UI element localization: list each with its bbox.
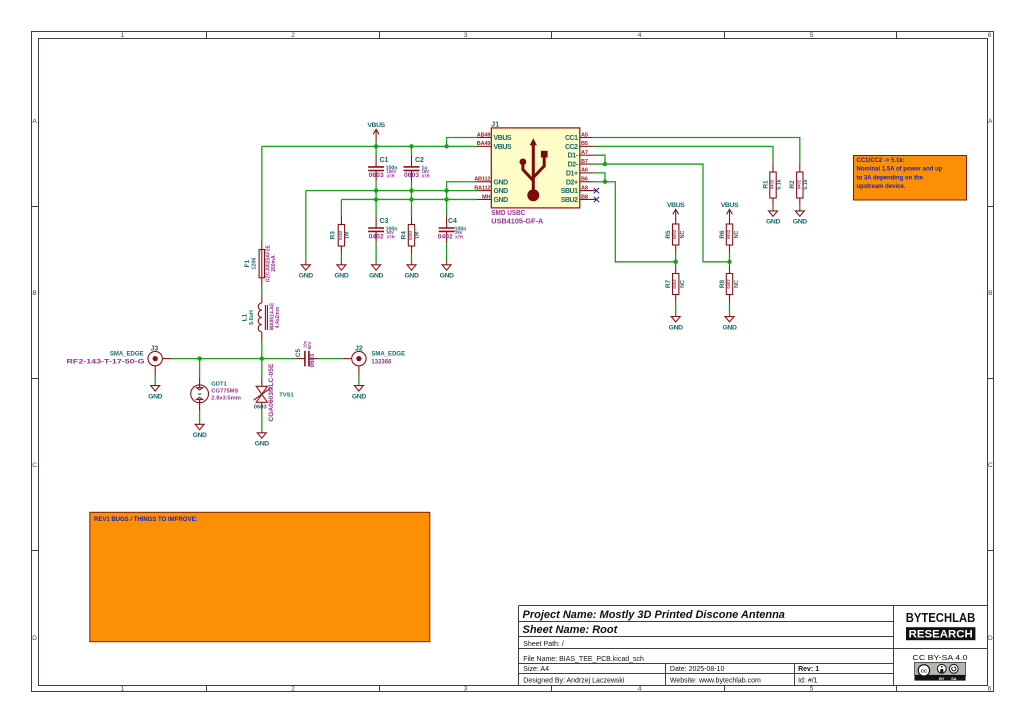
svg-text:GND: GND [193,432,207,439]
svg-text:GND: GND [404,273,418,280]
svg-text:C1: C1 [380,157,389,164]
svg-text:File Name: BIAS_TEE_PCB.kicad_: File Name: BIAS_TEE_PCB.kicad_sch [523,656,644,663]
svg-text:Project Name: Mostly 3D Printe: Project Name: Mostly 3D Printed Discone … [523,609,785,621]
svg-text:A5: A5 [581,132,588,138]
svg-text:to 3A depending on the: to 3A depending on the [857,175,924,181]
svg-text:B5: B5 [581,141,588,147]
svg-text:CC: CC [921,668,928,673]
svg-text:SMA_EDGE: SMA_EDGE [110,352,144,358]
svg-text:0402: 0402 [369,233,384,240]
svg-text:5: 5 [810,32,814,39]
svg-text:5.1k: 5.1k [803,179,809,190]
svg-text:GND: GND [352,394,366,401]
svg-text:GND: GND [255,441,269,448]
svg-text:GND: GND [148,394,162,401]
svg-text:Id: #/1: Id: #/1 [798,678,818,685]
svg-text:B6: B6 [581,177,588,183]
svg-text:Website: www.bytechlab.com: Website: www.bytechlab.com [670,678,761,685]
svg-text:L1: L1 [242,313,249,321]
svg-text:A: A [988,118,993,125]
svg-text:1: 1 [121,686,125,693]
svg-text:R1: R1 [762,180,769,189]
svg-text:Rev: 1: Rev: 1 [798,666,819,673]
svg-text:4: 4 [638,32,642,39]
svg-text:A: A [32,118,37,125]
svg-text:USB4105-GF-A: USB4105-GF-A [491,216,544,225]
svg-text:GND: GND [494,197,509,204]
svg-text:R2: R2 [789,180,796,189]
svg-text:0402: 0402 [770,179,775,189]
svg-text:GND: GND [299,273,313,280]
svg-text:VBUS: VBUS [367,122,385,129]
svg-text:X7R: X7R [422,173,430,178]
svg-text:CGA0603MLC-05E: CGA0603MLC-05E [269,364,275,422]
svg-text:SMA_EDGE: SMA_EDGE [371,352,405,358]
svg-text:BYTECHLAB: BYTECHLAB [906,611,976,625]
svg-text:J2: J2 [355,346,363,353]
svg-text:R4: R4 [401,231,408,240]
svg-text:NC: NC [680,231,686,239]
svg-text:4.4x2mm: 4.4x2mm [275,306,281,328]
svg-text:0603: 0603 [404,172,419,179]
svg-text:R5: R5 [665,230,672,239]
svg-text:CC1: CC1 [565,135,578,142]
svg-text:50V: 50V [307,342,312,350]
svg-text:5.1k: 5.1k [776,179,782,190]
svg-text:D2-: D2- [568,162,579,169]
svg-text:0402: 0402 [672,229,677,239]
svg-text:NC: NC [734,231,740,239]
svg-text:2.8x3.5mm: 2.8x3.5mm [211,396,241,402]
svg-text:0402: 0402 [672,279,677,289]
svg-text:TVS1: TVS1 [279,393,294,399]
svg-text:GND: GND [494,188,509,195]
svg-text:Sheet Path: /: Sheet Path: / [523,641,564,648]
svg-text:CC BY-SA 4.0: CC BY-SA 4.0 [913,653,968,662]
svg-text:GND: GND [369,273,383,280]
svg-text:1206: 1206 [251,258,257,270]
svg-text:0402: 0402 [726,229,731,239]
svg-text:BY: BY [939,677,945,681]
svg-text:GND: GND [722,325,736,332]
svg-text:4: 4 [638,686,642,693]
svg-text:Date: 2025-08-10: Date: 2025-08-10 [670,666,725,673]
svg-text:0603: 0603 [310,353,316,367]
svg-text:J3: J3 [151,346,159,353]
svg-text:VBUS: VBUS [667,202,685,209]
svg-text:VBUS: VBUS [494,144,512,151]
svg-text:A6: A6 [581,168,588,174]
svg-text:3: 3 [464,686,468,693]
svg-text:VBUS: VBUS [494,135,512,142]
svg-text:1M: 1M [344,231,350,239]
svg-text:5: 5 [810,686,814,693]
svg-text:R6: R6 [719,230,726,239]
svg-text:Size: A4: Size: A4 [523,666,549,673]
svg-text:0402: 0402 [338,230,343,240]
svg-text:D: D [32,635,37,642]
svg-text:Nominal 1.5A of power and up: Nominal 1.5A of power and up [857,167,943,173]
svg-text:GND: GND [766,219,780,226]
svg-text:3: 3 [464,32,468,39]
svg-text:GDT1: GDT1 [211,382,227,388]
svg-text:0603: 0603 [254,404,268,410]
svg-text:C: C [988,462,993,469]
svg-text:1M: 1M [414,231,420,239]
svg-text:2: 2 [291,32,295,39]
svg-text:1: 1 [121,32,125,39]
svg-text:D1-: D1- [568,153,579,160]
svg-text:Designed By: Andrzej Laczewski: Designed By: Andrzej Laczewski [523,678,625,685]
svg-text:C: C [32,462,37,469]
svg-text:250mA: 250mA [271,255,277,272]
svg-text:0402: 0402 [408,230,413,240]
svg-text:D1+: D1+ [566,170,578,177]
svg-text:AB49: AB49 [477,132,491,138]
svg-text:GND: GND [793,219,807,226]
svg-text:CG775MS: CG775MS [211,389,238,395]
svg-text:A7: A7 [581,150,588,156]
svg-text:MH: MH [482,194,490,200]
svg-text:CC2: CC2 [565,144,578,151]
svg-text:BA49: BA49 [477,141,491,147]
svg-text:R8: R8 [719,279,726,288]
svg-text:RF2-143-T-17-50-G: RF2-143-T-17-50-G [67,360,145,366]
svg-text:0603: 0603 [369,172,384,179]
svg-text:Sheet Name: Root: Sheet Name: Root [523,624,619,636]
svg-text:AB112: AB112 [474,177,490,183]
svg-text:upstream device.: upstream device. [857,184,906,190]
svg-text:6: 6 [988,32,992,39]
svg-text:SBU2: SBU2 [561,197,578,204]
svg-text:R7: R7 [665,279,672,288]
svg-text:SBU1: SBU1 [561,188,578,195]
svg-text:GND: GND [494,179,509,186]
svg-text:0402: 0402 [438,233,453,240]
svg-text:B: B [32,290,36,297]
svg-text:C5: C5 [295,348,302,357]
svg-text:SA: SA [951,677,957,681]
svg-text:B8: B8 [581,194,588,200]
svg-text:B: B [988,290,992,297]
svg-text:GND: GND [334,273,348,280]
svg-text:0402: 0402 [796,179,801,189]
svg-text:GND: GND [440,273,454,280]
svg-text:REV1 BUGS / THINGS TO IMPROVE:: REV1 BUGS / THINGS TO IMPROVE: [94,517,198,523]
svg-text:J1: J1 [491,121,499,128]
svg-text:C3: C3 [380,218,389,225]
svg-text:R3: R3 [329,231,336,240]
svg-text:132366: 132366 [371,360,392,366]
svg-text:2: 2 [291,686,295,693]
svg-text:NC: NC [734,280,740,288]
svg-text:BA112: BA112 [474,185,490,191]
svg-text:X7R: X7R [387,173,395,178]
svg-text:B7: B7 [581,159,588,165]
svg-text:VBUS: VBUS [721,202,739,209]
svg-text:CC1/CC2 -> 5.1k:: CC1/CC2 -> 5.1k: [857,158,905,164]
svg-text:X7R: X7R [387,235,395,240]
svg-text:NC: NC [680,280,686,288]
svg-text:C2: C2 [415,157,424,164]
svg-text:F1: F1 [244,259,251,267]
svg-text:A8: A8 [581,185,588,191]
svg-text:D2+: D2+ [566,179,578,186]
svg-text:RESEARCH: RESEARCH [909,629,973,641]
svg-text:GND: GND [669,325,683,332]
svg-text:0402: 0402 [726,279,731,289]
svg-text:C4: C4 [448,218,457,225]
svg-text:X7R: X7R [455,235,463,240]
svg-text:6: 6 [988,686,992,693]
svg-text:5.6uH: 5.6uH [249,310,255,325]
svg-text:D: D [988,635,993,642]
